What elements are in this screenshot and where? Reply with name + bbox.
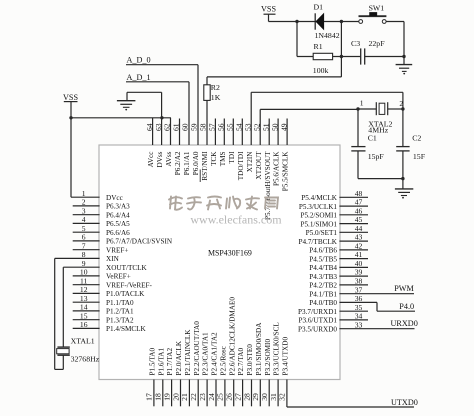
svg-text:P1.7/TA2: P1.7/TA2	[166, 348, 174, 376]
svg-text:5: 5	[82, 224, 86, 233]
svg-text:26: 26	[225, 393, 234, 401]
svg-text:P3.4/UTXD0: P3.4/UTXD0	[282, 337, 290, 376]
svg-text:TCK: TCK	[210, 151, 218, 166]
svg-text:15F: 15F	[413, 152, 426, 161]
svg-text:UTXD0: UTXD0	[391, 398, 418, 407]
svg-text:1K: 1K	[211, 93, 221, 102]
svg-text:28: 28	[242, 393, 251, 401]
svg-text:VREF-/VeREF-: VREF-/VeREF-	[106, 281, 153, 289]
svg-text:P4.6/TB6: P4.6/TB6	[309, 247, 337, 255]
svg-text:DVcc: DVcc	[106, 194, 123, 202]
svg-text:XT2IN: XT2IN	[246, 151, 254, 173]
svg-text:DVss: DVss	[156, 151, 164, 167]
svg-text:MSP430F169: MSP430F169	[208, 249, 252, 258]
svg-text:www.elecfans.com: www.elecfans.com	[190, 213, 282, 227]
svg-text:44: 44	[355, 224, 363, 233]
svg-text:P2.1/TAINCLK: P2.1/TAINCLK	[184, 329, 192, 376]
svg-text:42: 42	[355, 242, 363, 251]
svg-text:P1.6/TA1: P1.6/TA1	[157, 348, 165, 376]
svg-text:VSS: VSS	[261, 4, 276, 13]
svg-text:C1: C1	[368, 134, 377, 143]
svg-text:RST/NMI: RST/NMI	[201, 151, 209, 181]
svg-text:P3.7/URXD1: P3.7/URXD1	[298, 308, 337, 316]
svg-text:URXD0: URXD0	[391, 319, 418, 328]
svg-text:P5.6/ACLK: P5.6/ACLK	[273, 151, 281, 186]
svg-text:P5.4/MCLK: P5.4/MCLK	[301, 194, 338, 202]
svg-text:14: 14	[80, 303, 88, 312]
svg-text:P1.4/SMCLK: P1.4/SMCLK	[106, 325, 147, 333]
svg-text:AVcc: AVcc	[147, 152, 155, 168]
svg-text:24: 24	[207, 393, 216, 401]
svg-text:7: 7	[82, 241, 86, 250]
svg-text:59: 59	[190, 123, 199, 131]
svg-text:C3: C3	[351, 39, 360, 48]
svg-text:P5.1/SIMO1: P5.1/SIMO1	[300, 220, 337, 228]
svg-text:34: 34	[355, 312, 363, 321]
svg-text:P2.3/CA0/TA1: P2.3/CA0/TA1	[202, 332, 210, 376]
svg-text:39: 39	[355, 268, 363, 277]
svg-text:P6.0/A0: P6.0/A0	[192, 151, 200, 175]
svg-text:32: 32	[278, 393, 287, 401]
svg-text:P3.6/UTXD1: P3.6/UTXD1	[298, 317, 337, 325]
svg-text:P3.3/UCLK0/SCL: P3.3/UCLK0/SCL	[273, 322, 281, 375]
svg-text:P2.4/CA1/TA2: P2.4/CA1/TA2	[211, 332, 219, 376]
svg-text:31: 31	[269, 393, 278, 401]
svg-text:35: 35	[355, 303, 363, 312]
svg-text:29: 29	[251, 393, 260, 401]
svg-text:41: 41	[355, 250, 363, 259]
svg-text:20: 20	[171, 393, 180, 401]
svg-text:9: 9	[82, 259, 86, 268]
svg-text:25: 25	[216, 393, 225, 401]
svg-text:P6.5/A5: P6.5/A5	[106, 220, 130, 228]
svg-text:2: 2	[399, 99, 403, 108]
svg-text:P6.1/A1: P6.1/A1	[183, 151, 191, 175]
svg-text:1N4842: 1N4842	[315, 31, 340, 40]
svg-text:P4.1/TB1: P4.1/TB1	[309, 290, 337, 298]
svg-text:3: 3	[82, 206, 86, 215]
svg-text:XTAL1: XTAL1	[71, 337, 95, 346]
svg-text:33: 33	[355, 320, 363, 329]
svg-text:38: 38	[355, 277, 363, 286]
svg-text:P6.4/A4: P6.4/A4	[106, 211, 130, 219]
svg-text:XIN: XIN	[106, 255, 120, 263]
svg-text:1: 1	[360, 99, 364, 108]
svg-text:P4.5/TB5: P4.5/TB5	[309, 255, 337, 263]
svg-text:46: 46	[355, 206, 363, 215]
svg-text:17: 17	[145, 393, 154, 401]
svg-text:P6.2/A2: P6.2/A2	[174, 151, 182, 175]
svg-text:TMS: TMS	[219, 152, 227, 167]
svg-text:36: 36	[355, 294, 363, 303]
svg-text:P3.1/SIMO0/SDA: P3.1/SIMO0/SDA	[255, 322, 263, 376]
svg-text:13: 13	[80, 294, 88, 303]
svg-text:P6.6/A6: P6.6/A6	[106, 229, 130, 237]
svg-text:60: 60	[181, 123, 190, 131]
svg-text:TDO/TDI: TDO/TDI	[237, 151, 245, 180]
svg-text:12: 12	[80, 285, 88, 294]
svg-text:D1: D1	[314, 3, 324, 12]
svg-text:P5.3/UCLK1: P5.3/UCLK1	[299, 203, 338, 211]
svg-text:2: 2	[82, 198, 86, 207]
svg-text:VeREF+: VeREF+	[106, 273, 131, 281]
svg-text:27: 27	[233, 393, 242, 401]
svg-text:AVss: AVss	[165, 151, 173, 166]
svg-text:P5.5/SMCLK: P5.5/SMCLK	[282, 151, 290, 192]
svg-text:11: 11	[80, 276, 88, 285]
svg-text:SW1: SW1	[369, 4, 385, 13]
svg-text:P3.0/STE0: P3.0/STE0	[246, 344, 254, 376]
svg-text:37: 37	[355, 285, 363, 294]
svg-text:P2.0/ACLK: P2.0/ACLK	[175, 340, 183, 375]
svg-text:C2: C2	[412, 134, 421, 143]
svg-text:P1.3/TA2: P1.3/TA2	[106, 316, 134, 324]
svg-text:P4.2/TB2: P4.2/TB2	[309, 282, 337, 290]
svg-text:47: 47	[355, 198, 363, 207]
svg-text:P2.6/ADC12CLK/DMAE0: P2.6/ADC12CLK/DMAE0	[228, 297, 236, 376]
svg-text:22: 22	[189, 393, 198, 401]
svg-text:P5.7/TBoutH/SVSOUT: P5.7/TBoutH/SVSOUT	[264, 151, 272, 220]
svg-text:100k: 100k	[313, 66, 329, 75]
svg-text:1: 1	[82, 189, 86, 198]
svg-text:P1.2/TA1: P1.2/TA1	[106, 308, 134, 316]
svg-text:P4.0/TB0: P4.0/TB0	[309, 299, 337, 307]
svg-text:TDI: TDI	[228, 151, 236, 164]
svg-text:40: 40	[355, 259, 363, 268]
svg-text:A_D_0: A_D_0	[127, 56, 151, 65]
svg-text:P3.2/SOMI0: P3.2/SOMI0	[264, 339, 272, 376]
svg-text:58: 58	[199, 123, 208, 131]
svg-text:XT2OUT: XT2OUT	[255, 151, 263, 180]
svg-text:16: 16	[80, 320, 88, 329]
svg-text:21: 21	[180, 393, 189, 401]
svg-text:PWM: PWM	[394, 284, 414, 293]
svg-text:18: 18	[154, 393, 163, 401]
svg-text:P2.2/CAOUT/TA0: P2.2/CAOUT/TA0	[193, 321, 201, 376]
svg-text:R2: R2	[211, 83, 220, 92]
svg-text:P1.1/TA0: P1.1/TA0	[106, 299, 134, 307]
svg-text:43: 43	[355, 233, 363, 242]
svg-text:4: 4	[82, 215, 86, 224]
svg-text:P4.7/TBCLK: P4.7/TBCLK	[298, 238, 337, 246]
svg-text:P6.7/A7/DACI/SVSIN: P6.7/A7/DACI/SVSIN	[106, 238, 173, 246]
svg-text:P2.5/Rosc: P2.5/Rosc	[220, 346, 228, 375]
svg-text:P1.0/TACLK: P1.0/TACLK	[106, 290, 145, 298]
svg-text:10: 10	[80, 268, 88, 277]
svg-text:VSS: VSS	[63, 93, 78, 102]
svg-text:P1.5/TA0: P1.5/TA0	[149, 348, 157, 376]
svg-text:P5.0/SET1: P5.0/SET1	[306, 229, 338, 237]
svg-text:45: 45	[355, 215, 363, 224]
svg-text:P4.3/TB3: P4.3/TB3	[309, 273, 337, 281]
svg-text:15: 15	[80, 311, 88, 320]
svg-text:15pF: 15pF	[368, 152, 385, 161]
svg-text:22pF: 22pF	[369, 39, 386, 48]
svg-text:8: 8	[82, 250, 86, 259]
svg-text:VREF+: VREF+	[106, 246, 128, 254]
svg-text:R1: R1	[314, 42, 323, 51]
svg-text:19: 19	[162, 393, 171, 401]
svg-text:A_D_1: A_D_1	[127, 73, 151, 82]
svg-text:P2.7/TA0: P2.7/TA0	[237, 348, 245, 376]
svg-text:23: 23	[198, 393, 207, 401]
svg-text:6: 6	[82, 233, 86, 242]
svg-text:P5.2/SOMI1: P5.2/SOMI1	[300, 212, 337, 220]
svg-text:32768Hz: 32768Hz	[71, 355, 100, 364]
svg-text:48: 48	[355, 189, 363, 198]
svg-text:P4.0: P4.0	[399, 302, 414, 311]
svg-text:30: 30	[260, 393, 269, 401]
svg-text:XOUT/TCLK: XOUT/TCLK	[106, 264, 148, 272]
svg-text:P4.4/TB4: P4.4/TB4	[309, 264, 337, 272]
svg-text:P6.3/A3: P6.3/A3	[106, 203, 130, 211]
svg-text:P3.5/URXD0: P3.5/URXD0	[298, 325, 337, 333]
